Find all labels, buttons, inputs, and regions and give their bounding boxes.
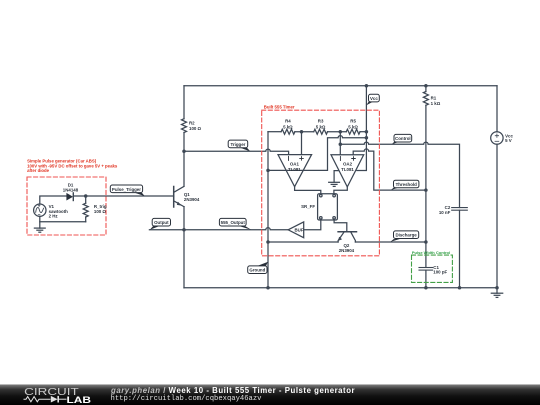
red dashed box pulse generator <box>27 177 106 235</box>
resistor R_trig <box>83 196 88 222</box>
wire bottom rail <box>184 287 497 289</box>
label V1 <box>49 204 69 219</box>
junction gnd column bottom rail <box>266 286 270 290</box>
junction Q1 emitter-output node <box>182 228 186 232</box>
resistor R4 <box>281 129 295 134</box>
wire trigger row <box>184 149 289 155</box>
junction discharge node <box>424 240 428 244</box>
resistor R1 <box>423 86 428 190</box>
annotation simple pulse generator <box>27 159 118 173</box>
junction gnd column Q2 emitter <box>266 240 270 244</box>
svg-text:2 Hz: 2 Hz <box>49 214 59 219</box>
footer bar <box>0 384 540 405</box>
svg-text:Trigger: Trigger <box>231 142 246 147</box>
svg-text:Pulse Width Control: Pulse Width Control <box>412 250 450 255</box>
voltage source V1 <box>34 204 46 216</box>
wire vcc column <box>365 86 367 132</box>
wire BUF input to SR_FF <box>304 219 321 230</box>
svg-text:100 pF: 100 pF <box>433 270 447 275</box>
svg-text:Control: Control <box>395 136 411 141</box>
svg-text:1 kΩ: 1 kΩ <box>431 101 441 106</box>
junction Vcc source bottom rail <box>495 286 499 290</box>
junction R5-vcc node <box>365 130 369 134</box>
label D1 <box>63 183 79 193</box>
junction R2-trigger node <box>182 150 186 154</box>
wire base row (pulse trigger) <box>74 195 174 197</box>
junction R1 top rail <box>424 84 428 88</box>
flag Threshold <box>391 180 419 190</box>
label OA2 inputs <box>340 157 355 161</box>
label OA1 inputs <box>289 156 304 160</box>
junction C1 bottom rail <box>424 286 428 290</box>
flag 555_Output <box>219 218 251 229</box>
wire discharge to C1 <box>425 242 427 267</box>
label C1 <box>433 265 447 275</box>
label R1 <box>431 95 441 106</box>
svg-text:Built 555 Timer: Built 555 Timer <box>264 105 295 110</box>
capacitor C1 <box>419 268 433 271</box>
svg-text:after diode: after diode <box>27 168 50 173</box>
wire Q2 collector discharge row <box>355 241 426 243</box>
wire R2 bottom to trigger junction <box>183 132 185 151</box>
wire C1 bottom <box>425 270 427 288</box>
svg-text:100 Ω: 100 Ω <box>94 209 107 214</box>
transistor Q1 <box>174 186 184 207</box>
flag Pulse_Trigger <box>110 185 144 196</box>
wire OA1 plus input <box>301 132 303 155</box>
wire R5 to Vcc column <box>360 131 366 133</box>
junction threshold node <box>424 188 428 192</box>
flag Discharge <box>390 231 418 242</box>
wire C2 bottom <box>459 210 461 287</box>
svg-text:R2: R2 <box>189 120 195 125</box>
svg-text:SR_FF: SR_FF <box>301 204 315 209</box>
svg-text:100 Ω: 100 Ω <box>189 126 202 131</box>
resistor R2 <box>182 119 187 133</box>
wire R4 to R3 <box>295 131 314 133</box>
svg-text:R4: R4 <box>285 119 291 124</box>
flag Trigger <box>228 140 250 151</box>
flag Control <box>392 134 412 144</box>
svg-text:5 V: 5 V <box>505 138 512 143</box>
label R_trig <box>94 204 107 214</box>
label C2 <box>439 205 451 215</box>
svg-text:Discharge: Discharge <box>395 233 417 238</box>
capacitor C2 <box>452 208 468 211</box>
junction R3-R5 node <box>339 130 343 134</box>
svg-text:Threshold: Threshold <box>396 182 418 187</box>
label Q1 <box>184 192 200 202</box>
label R4 <box>283 119 293 130</box>
red dashed box built 555 timer <box>262 110 380 256</box>
svg-text:BUF: BUF <box>294 227 303 232</box>
wire oa1 vminus rail <box>268 136 366 171</box>
wire vcc column lower (OA2 supply) <box>357 132 367 171</box>
ground OA2 <box>329 171 340 187</box>
wire left column upper (R2 top lead) <box>183 86 185 119</box>
svg-text:1N4148: 1N4148 <box>63 187 79 192</box>
wire Q2 emitter row <box>268 241 338 243</box>
resistor R5 <box>346 129 360 134</box>
wire top rail <box>184 85 497 87</box>
wire V1 top to diode <box>40 196 67 204</box>
op-amp OA1 <box>278 155 312 187</box>
wire gnd column x268 <box>267 132 269 288</box>
svg-text:5 kΩ: 5 kΩ <box>283 124 293 129</box>
resistor R3 <box>314 129 328 134</box>
resistor chain row: R4 left lead <box>268 131 281 133</box>
svg-text:5 kΩ: 5 kΩ <box>348 124 358 129</box>
diode D1 <box>66 193 73 201</box>
label R2 <box>189 120 202 131</box>
flip-flop SR_FF <box>318 194 338 220</box>
junction gnd column OA1 rail <box>266 169 270 173</box>
label R3 <box>316 119 326 130</box>
flag Ground <box>248 262 268 274</box>
ground V1 <box>34 222 45 232</box>
svg-text:TL081: TL081 <box>341 167 354 172</box>
op-amp OA2 <box>331 155 364 187</box>
wire output column down <box>183 230 185 288</box>
green dashed box pulse width control <box>412 255 453 282</box>
svg-text:555_Output: 555_Output <box>221 220 246 225</box>
svg-text:OA2: OA2 <box>343 162 353 167</box>
wire SR_FF to Q2 base <box>334 219 347 232</box>
flag Vcc <box>366 94 379 105</box>
svg-text:2N3904: 2N3904 <box>184 197 200 202</box>
svg-text:R1: R1 <box>431 95 437 100</box>
label OA1 <box>288 162 301 172</box>
svg-text:Output: Output <box>154 220 169 225</box>
ground bottom right <box>491 288 502 298</box>
svg-text:Vcc: Vcc <box>370 96 378 101</box>
wire control row <box>340 142 459 207</box>
buffer BUF <box>288 222 304 238</box>
svg-text:Pulse_Trigger: Pulse_Trigger <box>112 187 141 192</box>
flag Output <box>150 218 171 229</box>
svg-text:5 kΩ: 5 kΩ <box>316 124 326 129</box>
junction D1-R_trig node <box>84 194 88 198</box>
wire R3 to R5 <box>328 131 347 133</box>
wire OA2 minus input <box>339 132 341 155</box>
svg-text:OA1: OA1 <box>290 162 300 167</box>
junction supply rail node <box>365 136 369 140</box>
transistor Q2 <box>338 232 357 242</box>
wire OA2 output to SR_FF <box>334 187 347 194</box>
voltage source Vcc <box>491 86 503 288</box>
svg-text:R5: R5 <box>350 119 356 124</box>
label Vcc source <box>505 133 513 143</box>
label Q2 <box>339 243 355 253</box>
junction C2 bottom rail <box>458 286 462 290</box>
svg-text:Ground: Ground <box>249 268 265 273</box>
svg-text:LAB: LAB <box>67 395 92 405</box>
svg-text:2N3904: 2N3904 <box>339 248 355 253</box>
wire V1 bottom row <box>40 216 86 221</box>
wire trigger junction to Q1 collector <box>183 151 185 186</box>
junction control branch <box>339 143 343 147</box>
wire output row <box>149 228 288 230</box>
junction R4-R3 node <box>300 130 304 134</box>
wire OA1 output to SR_FF <box>295 187 321 194</box>
junction vcc column top rail <box>365 84 369 88</box>
svg-text:TL081: TL081 <box>288 167 301 172</box>
wire OA2 plus to threshold <box>353 149 426 190</box>
label OA2 <box>341 162 354 172</box>
svg-text:R3: R3 <box>318 119 324 124</box>
wire Q1 emitter down <box>183 207 185 230</box>
footer logo <box>22 385 97 405</box>
wire R1 column threshold to discharge <box>425 190 427 242</box>
label R5 <box>348 119 358 130</box>
svg-text:10 nF: 10 nF <box>439 210 451 215</box>
